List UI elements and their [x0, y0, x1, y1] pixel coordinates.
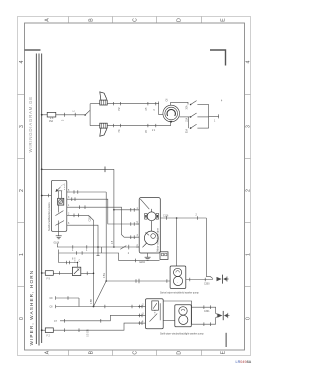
wire output to right drop — [206, 218, 213, 279]
rear washer pump M3 — [175, 305, 192, 327]
svg-text:.: . — [182, 319, 183, 323]
tick pair right H2 — [147, 124, 149, 127]
wiper motor module M1 — [139, 198, 160, 253]
connector bar ticks rear — [203, 305, 205, 309]
svg-text:E202: E202 — [140, 262, 146, 264]
svg-text:C7: C7 — [54, 321, 58, 323]
svg-text:1: 1 — [19, 253, 25, 256]
splice ticks pin4 wire — [73, 214, 75, 218]
splice tick H1 wire — [113, 102, 115, 105]
splice ticks pin1 wire — [73, 190, 75, 194]
wire horn output connector — [209, 115, 219, 117]
frame grid letters top — [44, 18, 226, 22]
multifunction column switch SW1 — [51, 180, 66, 231]
wire M1 output — [160, 217, 206, 219]
connector tick H2 wire — [120, 124, 122, 127]
wire bus to stalk switch — [42, 195, 52, 197]
wire SW1 pin5 drop — [70, 225, 98, 247]
horn switch S1 — [84, 114, 86, 116]
svg-text:2: 2 — [246, 189, 252, 192]
SW1 washer contact block — [58, 198, 64, 205]
svg-text:Switch-multifunction,column: Switch-multifunction,column — [48, 202, 51, 231]
wire SW2 to pump M3 — [163, 319, 175, 321]
junction M1 output — [176, 217, 178, 219]
tick pair right H1 — [147, 102, 149, 105]
svg-text:0.5 GN: 0.5 GN — [88, 329, 90, 337]
svg-text:G106: G106 — [54, 243, 60, 245]
horn relay contact K1a — [186, 101, 209, 110]
svg-text:WIPER, WASHER, HORN: WIPER, WASHER, HORN — [29, 270, 34, 346]
ground G2 wiper motor — [145, 257, 151, 260]
svg-text:0: 0 — [19, 317, 25, 320]
svg-text:0.5G: 0.5G — [104, 273, 106, 278]
connector bar washer line — [138, 279, 140, 283]
wire clockspring top to contact 1 — [171, 102, 188, 105]
tiny marks above module — [72, 259, 81, 263]
svg-text:D: D — [176, 351, 182, 355]
svg-text:3: 3 — [19, 125, 25, 128]
splice tick H2 wire — [113, 124, 115, 127]
svg-text:LR0498A: LR0498A — [236, 360, 252, 364]
svg-text:15A: 15A — [186, 117, 189, 122]
splice ticks rail1 — [72, 245, 74, 249]
wire pin5 stub below rail — [97, 247, 99, 256]
SW1 internal wire to ground — [58, 221, 60, 236]
wire to horn H1 — [90, 103, 100, 105]
svg-text:A: A — [44, 18, 50, 22]
svg-text:C: C — [79, 261, 81, 263]
ground G1 stalk switch — [56, 236, 62, 239]
inline connector block C2 — [160, 252, 168, 260]
svg-text:2: 2 — [128, 253, 130, 255]
svg-text:E: E — [220, 18, 226, 22]
wire washer feed vertical — [106, 192, 170, 281]
M1 internal top-left diagonal — [140, 199, 149, 209]
wire stub rail left C3 — [56, 297, 79, 299]
horn relay contact K1c — [186, 124, 209, 133]
svg-text:0: 0 — [246, 317, 252, 320]
SW2 pin labels — [142, 305, 144, 324]
svg-text:C8: C8 — [50, 307, 54, 309]
clockspring rotary coupler U1 — [163, 105, 180, 123]
misc tiny wire labels — [72, 101, 223, 313]
wire M3 outputs to connector — [191, 307, 217, 314]
M1 park switch cam — [143, 231, 159, 247]
wire contact tie vertical — [208, 105, 210, 129]
horn H1 (high tone) — [100, 92, 107, 105]
frame inner border — [25, 23, 245, 350]
connector mate pair CN2 — [217, 311, 229, 320]
wire horn H1 to clockspring — [107, 103, 159, 105]
wire bus tap to feed line — [41, 168, 43, 170]
wire SW1 pin4 long drop — [70, 215, 94, 306]
wire diode module to drop junction — [81, 272, 94, 274]
svg-text:3: 3 — [246, 125, 252, 128]
M1 pin labels — [137, 208, 139, 247]
svg-text:Swivel wiper-windshield washer: Swivel wiper-windshield washer pump — [160, 291, 199, 294]
wire SW1 pin3 to relay pin3 — [70, 207, 139, 237]
washer pump M2 front — [170, 266, 186, 289]
svg-text:C116: C116 — [163, 216, 169, 218]
svg-text:50A: 50A — [186, 129, 189, 134]
svg-text:C: C — [132, 351, 138, 355]
svg-text:A: A — [44, 350, 50, 354]
svg-text:1: 1 — [214, 121, 216, 123]
connector mate pair CN1 — [217, 275, 229, 284]
frame outer border — [18, 17, 251, 356]
svg-text:15A: 15A — [49, 120, 54, 123]
wire bus to horn fuse — [42, 114, 48, 116]
svg-text:C: C — [132, 18, 138, 22]
wire vertical to wiper relay pin1 — [113, 169, 115, 247]
wire bus to rear fuse — [42, 329, 46, 331]
node horn branch vertical — [89, 104, 91, 126]
wire branch to relay pin1 — [114, 209, 139, 211]
splice ticks pin3 wire — [79, 205, 81, 209]
wire fuse F3 to rear switch — [53, 323, 141, 330]
svg-text:1: 1 — [72, 250, 74, 252]
frame grid numbers left — [19, 60, 25, 320]
wire to horn H2 — [90, 125, 100, 127]
rear wiper washer switch SW2 — [146, 299, 164, 329]
splice tick 1 — [64, 113, 66, 117]
battery feed bracket right — [210, 50, 226, 66]
svg-text:1: 1 — [86, 250, 88, 252]
svg-text:C: C — [73, 110, 75, 112]
wire contact2 to contact3 feed — [187, 117, 189, 128]
svg-text:30A: 30A — [186, 105, 189, 110]
M1 pin stubs left — [136, 210, 139, 247]
svg-text:D: D — [176, 18, 182, 22]
fuse F3 rear washer — [45, 328, 53, 333]
SW1 pin stubs right — [67, 192, 70, 225]
SW1 wash switch blade — [55, 211, 63, 216]
svg-text:2: 2 — [154, 109, 156, 111]
wire jumper rail1 to rail2 — [101, 247, 103, 253]
wire bus to washer fuse — [42, 272, 46, 274]
SW1 contact track verticals — [59, 191, 62, 213]
wire lower feed rail 1 — [57, 244, 139, 248]
connector end tick — [218, 114, 220, 118]
horn H2 (low tone) — [100, 123, 107, 136]
svg-text:C5: C5 — [146, 107, 148, 111]
wire drop to washer pump feed — [176, 218, 178, 266]
svg-text:1: 1 — [246, 253, 252, 256]
svg-text:C6: C6 — [167, 98, 169, 102]
SW1 lower blade — [55, 221, 64, 226]
wire fuse F2 to diode module — [53, 272, 72, 274]
wire lower feed rail 2 — [59, 250, 160, 261]
SW2 pin stubs left — [138, 307, 146, 324]
svg-text:F 9: F 9 — [47, 279, 51, 281]
svg-text:0.5B: 0.5B — [91, 299, 93, 304]
wire SW1 pin2 — [70, 199, 139, 224]
svg-text:8: 8 — [72, 259, 74, 261]
wire rear rail 2 staircase — [60, 315, 142, 320]
svg-text:B: B — [88, 350, 94, 354]
svg-text:C9: C9 — [50, 298, 54, 300]
diode module D1 — [72, 267, 80, 275]
wire drop C3 to rear rail — [78, 298, 80, 307]
splice tick rail2 — [134, 259, 136, 263]
splice tick feed line — [104, 167, 106, 173]
connector tick C1 — [74, 113, 76, 117]
wire rear switch rail — [56, 306, 142, 308]
svg-text:2: 2 — [196, 215, 198, 217]
svg-text:C5: C5 — [146, 129, 148, 133]
svg-text:C301: C301 — [204, 311, 210, 313]
connector tick H1 wire — [120, 102, 122, 105]
svg-text:WIRINGDIAGRAM.GE: WIRINGDIAGRAM.GE — [28, 96, 33, 152]
wire clockspring bottom stub — [170, 122, 172, 126]
frame grid letters bottom — [44, 350, 226, 354]
svg-text:Z 6: Z 6 — [50, 118, 54, 120]
svg-text:4: 4 — [19, 60, 25, 63]
svg-text:C206: C206 — [90, 215, 92, 221]
SW1 pin labels — [68, 190, 70, 225]
wire M2 output to connector — [186, 279, 213, 281]
wire diagonal jumper to washer line — [94, 281, 107, 307]
wire SW2 top feed out — [163, 301, 191, 307]
svg-text:.: . — [177, 280, 178, 284]
svg-text:H1: H1 — [119, 129, 121, 133]
switch blade on rail 1 — [120, 246, 126, 250]
dashed link above diode module — [74, 258, 76, 263]
junction feed rail1 — [113, 246, 115, 248]
M1 ground drop — [147, 253, 149, 257]
power bus (3 lines) — [36, 54, 41, 346]
frame grid numbers right — [246, 60, 252, 320]
junction dot pin4 drop — [93, 306, 95, 308]
horn relay contact K1b — [186, 113, 209, 122]
wire bypass loop over diode module — [59, 253, 78, 267]
junction washer feed corner — [105, 280, 107, 282]
svg-text:Swift wiper window/backlight w: Swift wiper window/backlight washer pump — [160, 333, 204, 336]
svg-text:C300: C300 — [204, 284, 210, 286]
junction bus horn feed — [41, 114, 43, 116]
wire horn H2 to clockspring — [107, 125, 171, 127]
battery feed mark left — [25, 49, 41, 51]
svg-text:H2: H2 — [119, 107, 121, 111]
M1 armature motor symbol — [145, 209, 159, 231]
wire clockspring right to contact 2 — [179, 116, 190, 118]
antenna stub wire bottom right — [225, 333, 227, 347]
svg-text:F 2: F 2 — [47, 336, 51, 338]
fuse F2 washer — [45, 271, 53, 276]
wire fuse to horn switch — [56, 114, 85, 116]
svg-text:2: 2 — [63, 119, 65, 121]
junction feed pin1 — [113, 209, 115, 211]
svg-text:2: 2 — [19, 189, 25, 192]
wire feed line B+ to vertical — [42, 168, 114, 170]
svg-text:B: B — [88, 18, 94, 22]
svg-text:4: 4 — [221, 101, 223, 103]
fuse F1 horn — [47, 112, 56, 117]
svg-text:2 1: 2 1 — [152, 130, 156, 132]
splice tick washer line — [166, 279, 168, 283]
wire SW1 pin1 to relay pin2 — [70, 191, 106, 193]
frame grid dividers — [18, 17, 251, 356]
SW2 pin connector ticks — [139, 305, 142, 325]
svg-text:E: E — [220, 350, 226, 354]
connector tick rail 1 — [128, 245, 130, 250]
svg-text:4: 4 — [246, 60, 252, 63]
splice tick output — [197, 216, 199, 220]
SW1 wiper arrow symbol — [55, 184, 64, 192]
wire into clockspring left — [159, 102, 163, 115]
